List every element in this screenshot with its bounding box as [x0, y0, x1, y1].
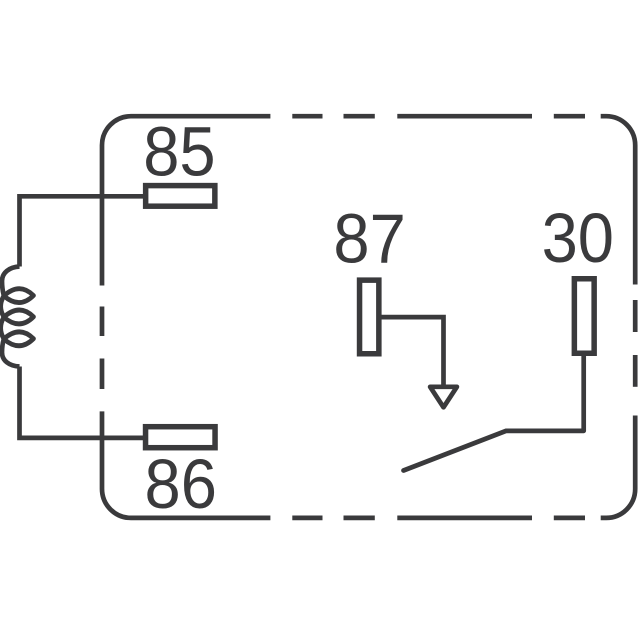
svg-text:86: 86 — [145, 446, 217, 524]
terminal 87 — [360, 280, 379, 354]
svg-text:85: 85 — [143, 113, 215, 191]
svg-text:30: 30 — [542, 200, 614, 278]
wire: terminal 87 to normally-open contact arrow — [379, 317, 444, 385]
relay enclosure (dashed case outline) — [102, 116, 635, 518]
coil K1 — [1, 267, 34, 367]
normally-open contact arrow (open triangle) — [430, 387, 457, 408]
wire: coil bottom lead to terminal 86 — [20, 367, 146, 438]
switch blade (movable contact from terminal 30) — [404, 431, 584, 471]
terminal 85 — [146, 186, 215, 207]
terminal 86 — [146, 427, 216, 448]
terminal 30 — [574, 279, 594, 354]
svg-text:87: 87 — [333, 200, 405, 278]
wire: terminal 85 to coil top lead — [20, 196, 146, 266]
wire: terminal 30 down to switch pivot — [581, 356, 586, 431]
